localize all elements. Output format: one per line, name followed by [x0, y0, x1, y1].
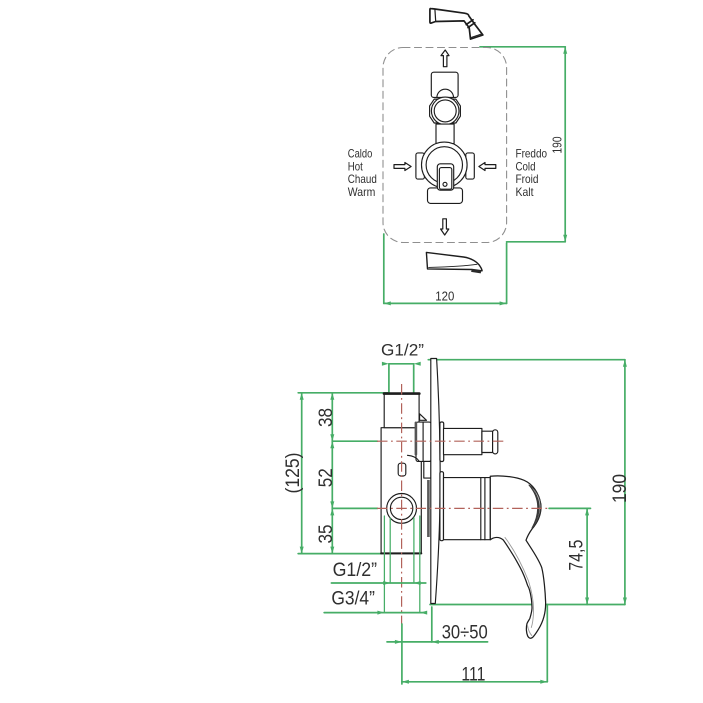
dimension 74,5 extension line top — [549, 507, 590, 509]
extension line cartridge axis — [332, 507, 377, 509]
handle cap hatch arc 1 — [532, 489, 539, 525]
handle tip highlight — [528, 626, 532, 636]
dimension G1/2 bottom arrowheads — [383, 581, 421, 585]
lever handle — [490, 476, 545, 638]
shower outlet pipe — [444, 428, 482, 454]
valve body column — [436, 124, 454, 144]
svg-text:30÷50: 30÷50 — [442, 621, 488, 643]
dimension 30÷50 arrowheads — [395, 640, 439, 644]
valve nut outer ring — [431, 97, 459, 125]
dimension G1/2 top arrowheads — [382, 362, 421, 366]
sleeve rim line 1 — [480, 478, 482, 540]
dimension 120 arrowheads — [384, 301, 507, 305]
dimension 190 (front view) extension line top — [480, 46, 565, 48]
boss flange shadow line — [415, 423, 418, 454]
svg-text:111: 111 — [461, 663, 485, 685]
dimension 111 extension line right — [546, 605, 548, 682]
svg-text:Kalt: Kalt — [516, 186, 535, 199]
svg-text:190: 190 — [609, 474, 631, 503]
dimension 74,5 extension line bottom (plate bottom, behind handle) — [430, 604, 625, 606]
svg-text:190: 190 — [551, 136, 565, 153]
dimension 74,5 arrowheads — [585, 508, 589, 604]
dimension 190 (front view) dimension line — [564, 47, 566, 242]
svg-text:G1/2”: G1/2” — [381, 342, 424, 360]
valve right inlet port — [466, 153, 475, 179]
svg-text:35: 35 — [315, 524, 337, 543]
dimension 30÷50 extension line right — [431, 607, 433, 642]
valve body thick bottom edge — [381, 552, 421, 554]
boss lower step — [424, 461, 431, 478]
centerline vertical (valve axis) — [377, 384, 549, 624]
inlet port inner circle — [390, 497, 412, 519]
valve stem screw — [443, 182, 447, 186]
svg-text:52: 52 — [315, 468, 337, 487]
label Caldo Hot Chaud Warm — [348, 148, 377, 199]
shower head icon — [430, 8, 483, 39]
sleeve rim line 2 — [484, 478, 486, 540]
extension line body bottom — [298, 553, 381, 555]
svg-text:74,5: 74,5 — [565, 540, 587, 571]
dimension G3/4 extension line left — [383, 516, 385, 613]
dimension 30÷50 text leader — [432, 641, 488, 643]
valve top pipe thick top edge — [384, 392, 419, 395]
shower outlet flange tab — [440, 422, 444, 462]
svg-text:120: 120 — [435, 290, 454, 304]
extension line shower outlet axis — [332, 440, 377, 442]
cold inlet arrow left — [479, 163, 496, 171]
valve stem housing — [437, 164, 453, 190]
valve nut inner ring — [434, 100, 456, 122]
dimension 74,5 dimension line — [586, 508, 588, 604]
svg-text:Warm: Warm — [348, 186, 376, 199]
centerline shower outlet axis — [377, 440, 506, 442]
handle cap hatch arc 2 — [535, 493, 539, 521]
extension line body top — [298, 392, 389, 394]
dimension (125) arrowheads — [300, 393, 304, 554]
body mounting slot — [398, 463, 406, 476]
dimension 120 extension line right — [506, 243, 508, 303]
mixer valve front view — [416, 72, 474, 203]
dimension G1/2 top extension line left — [388, 364, 390, 393]
svg-text:Caldo: Caldo — [348, 148, 373, 161]
shower outlet reduced step — [482, 431, 493, 452]
label Freddo Cold Froid Kalt — [516, 148, 548, 199]
dimension (125) dimension line — [301, 393, 303, 554]
dimension 111 arrowheads — [402, 680, 547, 684]
dimension 120 extension line left — [383, 234, 385, 303]
dimension G1/2 bottom leader line — [331, 582, 425, 584]
dimensions 38 52 35 dimension line — [331, 393, 333, 554]
valve left inlet port — [416, 153, 425, 179]
tub spout icon — [426, 252, 482, 270]
dimension G1/2 top extension line right — [413, 364, 415, 393]
mounting nut dark band — [427, 480, 430, 537]
inlet port outer circle G3/4 — [387, 494, 417, 524]
valve top pipe (side view) — [384, 393, 419, 428]
body elbow fillet — [408, 455, 420, 461]
svg-text:Hot: Hot — [348, 160, 364, 173]
handle highlight line — [505, 538, 534, 628]
boss inner edge — [422, 422, 424, 461]
dimension G3/4 leader line — [324, 612, 426, 614]
valve main body (side view) — [381, 428, 421, 554]
dimensions 38 52 35 arrowheads — [330, 393, 334, 554]
dimension 190 (front view) arrowheads — [563, 47, 567, 242]
dimension G1/2 bottom extension line right — [413, 518, 415, 583]
dimension 190 (side view) dimension line — [624, 360, 626, 605]
shower outlet arrow up — [441, 50, 449, 67]
valve cartridge outer circle — [422, 142, 468, 188]
pipe chamfer triangle — [420, 414, 427, 421]
dimension 30÷50 dimension line — [387, 641, 432, 643]
svg-text:38: 38 — [315, 408, 337, 427]
cartridge flange tab — [440, 472, 444, 541]
centerline cartridge axis — [377, 507, 549, 509]
svg-text:Freddo: Freddo — [516, 148, 548, 161]
valve upper connector boss — [416, 422, 431, 461]
svg-text:G1/2”: G1/2” — [333, 559, 378, 581]
dashed recessed wall box — [383, 48, 507, 243]
dimension 111 dimension line — [402, 681, 547, 683]
svg-text:G3/4”: G3/4” — [331, 587, 375, 609]
handle cap crescent — [529, 485, 541, 528]
valve bottom outlet block — [428, 188, 463, 204]
dimension G1/2 top dimension line — [389, 363, 414, 365]
cartridge sleeve — [444, 478, 491, 540]
shower outlet end nipple — [493, 430, 498, 454]
valve stem inner — [439, 168, 451, 190]
dimension 120 dimension line — [384, 302, 507, 304]
valve top outlet block — [431, 72, 458, 97]
valve cartridge inner circle — [426, 147, 462, 183]
dimension G1/2 bottom extension line left — [389, 518, 391, 583]
hot inlet arrow right — [394, 163, 411, 171]
svg-text:Cold: Cold — [516, 160, 536, 173]
tub spout aerator — [471, 269, 481, 273]
tub outlet arrow down — [441, 219, 449, 235]
dimension G3/4 extension line right — [419, 516, 421, 613]
dimension G3/4 arrowheads — [377, 611, 427, 615]
svg-text:(125): (125) — [282, 453, 304, 494]
svg-text:Froid: Froid — [516, 173, 539, 186]
dimension 190 (front view) extension line bottom — [507, 241, 566, 243]
dimension 30÷50 extension line left — [401, 624, 403, 684]
valve neck dome — [437, 89, 454, 97]
valve hex nut — [430, 99, 461, 123]
escutcheon plate (side profile) — [431, 359, 440, 604]
dimension 190 (side view) arrowheads — [623, 360, 627, 605]
dimension 190 (side view) extension line top — [428, 359, 625, 361]
svg-text:Chaud: Chaud — [348, 173, 377, 186]
